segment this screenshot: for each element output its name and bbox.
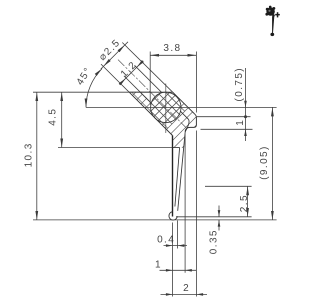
dimension 4.5 line	[61, 92, 63, 147]
dimension bottom 1 line with outside arrows	[160, 269, 197, 271]
extension line H4 right 1 lower ref	[201, 128, 253, 130]
dimension 0.4 line with outside arrows	[164, 245, 188, 247]
svg-text:(9.05): (9.05)	[259, 145, 270, 180]
dimension bottom 1 ext line right	[184, 134, 186, 273]
extension line H1 top reference	[33, 91, 150, 93]
dimension (0.75) vertical line	[245, 68, 247, 141]
svg-text:(0.75): (0.75)	[234, 67, 245, 102]
dimension bottom 2 line with outside arrows	[161, 293, 208, 295]
part: bore left wall edge	[140, 92, 151, 103]
part: leg right taper edge	[178, 132, 186, 211]
svg-text:0.4: 0.4	[157, 234, 175, 245]
dimension 3.8 extension right	[195, 52, 197, 113]
svg-text:1.2: 1.2	[119, 59, 140, 80]
dimension 45 deg arc	[86, 69, 102, 108]
dimension 1.2 line with outside arrows	[119, 78, 126, 85]
dimension 2.5 right line	[247, 186, 249, 217]
dimension 0.4 ext lines	[172, 223, 174, 297]
part: leg middle taper edge	[175, 148, 180, 207]
part: foot inner bottom edge	[173, 147, 180, 149]
extension line H3 (0.75) lower ref	[197, 116, 251, 118]
dimension (9.05) line	[271, 107, 273, 219]
dimension (0.75) dot at lower ref	[244, 115, 247, 118]
part outline: foot right profile	[185, 114, 196, 132]
extension line H2 ball centre line	[86, 106, 277, 108]
pushpin icon head	[265, 6, 275, 17]
bore channel white-out	[140, 92, 162, 103]
svg-text:2.5: 2.5	[239, 194, 250, 212]
leg region white-out (below inner foot bottom)	[173, 148, 184, 211]
part outline: outer-right barrel wall	[173, 92, 195, 114]
dimension 0.35 lower arrow and tail	[218, 220, 220, 231]
dimension dia 2.5 line	[101, 42, 128, 69]
dimension 1.2 ext line lower (bore left)	[124, 76, 140, 92]
dimension (0.75) down arrow at ball centre line	[244, 101, 247, 108]
dimension 10.3 line	[36, 92, 38, 220]
part: bottom curl loop	[169, 212, 177, 220]
dimension bottom 2 ext line right	[195, 131, 197, 297]
pushpin icon cross ornament	[275, 12, 280, 17]
part outline: outer-left barrel wall	[129, 92, 172, 135]
pushpin icon tip dot	[270, 33, 274, 36]
extension line H5 (2.5 top ref)	[205, 185, 252, 187]
dimension 3.8 line	[150, 54, 196, 56]
svg-text:2: 2	[183, 283, 190, 294]
part outline: top face edge	[129, 91, 173, 93]
part: bore right wall edge below ball	[181, 111, 189, 119]
ball B1 outline	[151, 92, 181, 122]
part: inner right curve to leg root	[185, 119, 189, 131]
dimension 0.35 upper arrow	[218, 206, 220, 217]
ball vertical centreline	[165, 84, 167, 134]
extension line H8 bottom reference	[33, 219, 277, 221]
svg-text:3.8: 3.8	[163, 43, 181, 54]
dimension right 1 up arrow	[244, 129, 247, 136]
svg-text:⌀2.5: ⌀2.5	[97, 37, 123, 63]
dimension 1.2 ext line upper (bore right)	[135, 65, 162, 92]
part: leg left edge	[172, 136, 174, 217]
hatching of barrel walls, foot section and ball (cross-hatch)	[45, 25, 306, 175]
extension line H9 foot inner bottom ref	[58, 147, 173, 149]
svg-text:1: 1	[235, 119, 246, 126]
dimension 3.8 extension left	[149, 52, 151, 105]
svg-text:1: 1	[155, 259, 162, 270]
pushpin icon stem	[272, 16, 274, 33]
dimension dia 2.5 ext line upper-right	[122, 43, 172, 93]
svg-text:10.3: 10.3	[24, 142, 35, 167]
extension line H6 (0.35 top ref)	[176, 216, 252, 218]
svg-text:0.35: 0.35	[209, 229, 220, 254]
barrel axis centerline	[118, 60, 187, 129]
svg-text:4.5: 4.5	[48, 108, 59, 126]
dimension dia 2.5 ext line lower-left	[101, 64, 129, 92]
